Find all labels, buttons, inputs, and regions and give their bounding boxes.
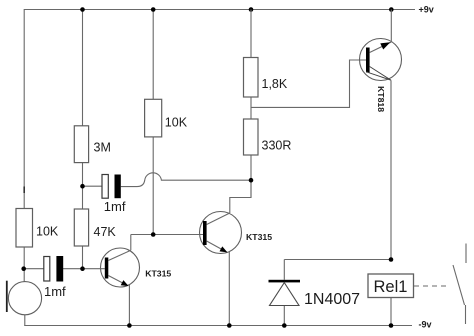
svg-text:-9v: -9v bbox=[419, 320, 432, 330]
wire left rail tick bbox=[23, 187, 25, 194]
switch contact bbox=[453, 244, 466, 325]
svg-text:KT315: KT315 bbox=[145, 269, 171, 279]
resistor 1,8K bbox=[244, 58, 259, 98]
junction dot collector node bbox=[151, 232, 156, 237]
svg-text:1N4007: 1N4007 bbox=[304, 291, 360, 308]
resistor 3M bbox=[74, 126, 88, 163]
svg-text:10K: 10K bbox=[165, 116, 188, 130]
wire column of left 10K and microphone bbox=[23, 247, 26, 326]
junction dot 47K bottom node bbox=[80, 266, 85, 271]
svg-text:3M: 3M bbox=[94, 141, 111, 155]
transistor Q3 KT818 bbox=[360, 10, 402, 260]
junction dot 330R bottom node bbox=[249, 178, 254, 183]
junction dot relay top bbox=[389, 257, 394, 262]
resistor 10K left bbox=[16, 209, 33, 248]
svg-text:47K: 47K bbox=[94, 225, 117, 239]
wire column of middle 10K bbox=[152, 10, 154, 235]
junction dot 3M bottom node bbox=[80, 184, 85, 189]
svg-text:+9v: +9v bbox=[419, 5, 434, 15]
wire KT818 base path bbox=[251, 60, 366, 107]
wire column 1,8K / 330R bbox=[250, 10, 252, 198]
capacitor C1 1mf bbox=[24, 268, 105, 270]
svg-text:Rel1: Rel1 bbox=[374, 278, 408, 296]
svg-text:1mf: 1mf bbox=[44, 284, 66, 299]
wire column of 3M/47K bbox=[82, 10, 84, 269]
wire +9v top rail and left rail bbox=[24, 10, 415, 209]
capacitor C2 1mf bbox=[83, 173, 252, 187]
resistor 10K middle bbox=[145, 99, 162, 137]
svg-text:330R: 330R bbox=[262, 139, 292, 153]
svg-text:KT315: KT315 bbox=[246, 232, 272, 242]
resistor 330R bbox=[244, 119, 259, 155]
svg-text:1mf: 1mf bbox=[104, 199, 126, 214]
wire Q1 collector to Q2 base bbox=[131, 234, 204, 236]
svg-text:1,8K: 1,8K bbox=[262, 77, 288, 91]
relay Rel1 bbox=[390, 298, 392, 326]
junction dots on +9v rail bbox=[80, 7, 85, 12]
microphone M1 bbox=[8, 282, 41, 315]
svg-text:KT818: KT818 bbox=[376, 86, 386, 112]
diode D1 1N4007 bbox=[269, 280, 301, 283]
junction dots on -9v rail bbox=[127, 323, 132, 328]
wire diode branch bbox=[284, 260, 391, 326]
resistor 47K bbox=[74, 209, 88, 246]
wire dashed relay to switch bbox=[414, 285, 449, 287]
svg-text:10K: 10K bbox=[36, 225, 59, 239]
transistor Q1 KT315 bbox=[101, 235, 172, 326]
transistor Q2 KT315 bbox=[200, 180, 273, 325]
wire -9v bottom rail bbox=[24, 325, 412, 327]
junction dot mic/10K node bbox=[21, 266, 26, 271]
